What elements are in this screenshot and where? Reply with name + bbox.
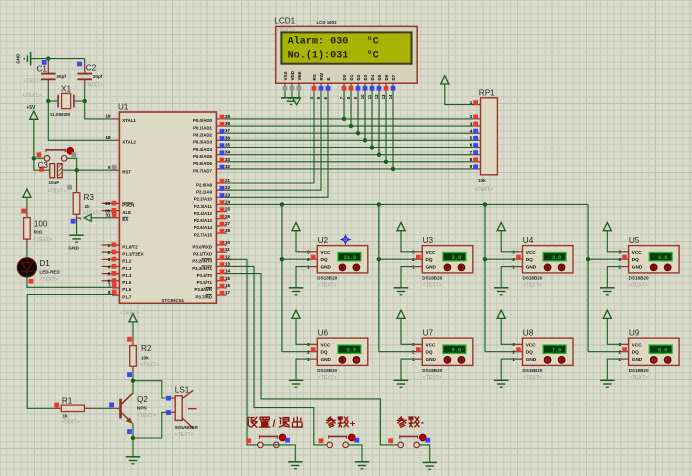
value Q2 NPN [137,405,147,410]
svg-text:DS18B20: DS18B20 [629,368,649,373]
wire +5V to U2 VCC [296,231,310,252]
temperature sensor U7 body [422,338,473,365]
pin P1.7 (8) [108,290,132,300]
svg-text:DS18B20: DS18B20 [422,276,442,281]
svg-text:GND: GND [526,265,537,270]
wire button SET to ground [264,445,296,462]
svg-text:<TEXT>: <TEXT> [48,189,67,195]
U4 display [543,253,566,261]
U7 button down [458,357,465,364]
wire collector node to LS1 top [133,381,168,398]
svg-text:P2.5/A13: P2.5/A13 [194,218,213,223]
U6 button down [353,357,360,364]
U3 button down [458,264,465,271]
svg-text:U2: U2 [318,236,329,245]
value R3 1k [85,204,91,209]
pin P0.3/AD3 (36) [193,135,231,144]
svg-text:11: 11 [225,247,230,252]
svg-text:13: 13 [381,94,386,99]
U4 pin GND (1) [512,264,536,269]
label U5 [629,236,640,245]
svg-text:D2: D2 [356,74,361,80]
svg-text:11.0592M: 11.0592M [50,112,70,117]
wire DQ to U9 [588,351,621,353]
text placeholder R3 [83,210,102,216]
U9 pin DQ (2) [618,347,639,355]
pin P1.6 (7) [108,283,132,293]
wire LCD RS to P2.0 [227,91,314,183]
svg-text:GND: GND [321,265,332,270]
power +5V (RP1) [441,76,449,84]
resistor R1 [53,405,92,411]
label LS1 [175,386,190,395]
LCD pin D4 (11) [367,74,375,99]
value U6 DS18B20 [317,368,337,373]
RP1 pin 1 [470,100,481,105]
svg-text:17: 17 [225,290,231,295]
pin P2.4/A12 (25) [194,207,231,216]
svg-text:50Ω: 50Ω [34,229,43,234]
svg-text:P2.0/A8: P2.0/A8 [196,182,212,187]
svg-text:SOUNDER: SOUNDER [175,425,199,430]
wire +5V to U9 VCC [607,318,621,344]
state square Q2 base (blue) [109,403,114,408]
wire RST [77,169,112,171]
sounder LS1 [168,390,197,428]
text placeholder LCD1 [276,28,295,34]
capacitor C2 [77,63,92,85]
pin P1.5 (6) [102,278,132,285]
svg-text:DS18B20: DS18B20 [629,276,649,281]
wire +5V to R100 [26,197,28,217]
node D1/P0.1 junction [349,124,353,128]
svg-text:P3.5/T1: P3.5/T1 [197,280,213,285]
svg-text:<TEXT>: <TEXT> [84,83,103,89]
svg-text:5.0: 5.0 [347,347,356,353]
ground (U4) [494,288,509,295]
svg-text:P2.6/A14: P2.6/A14 [194,225,213,230]
svg-text:P0.3/AD3: P0.3/AD3 [193,140,213,145]
wire DQ bus (P2.3) [227,203,588,205]
capacitor C1 [41,63,56,85]
svg-text:<TEXT>: <TEXT> [629,283,648,289]
node DQ drop 3 row1 junction [483,257,487,261]
label U6 [318,329,329,338]
wire DQ to U4 [485,258,515,260]
text placeholder U6 [318,375,337,381]
svg-text:4.0: 4.0 [658,255,667,261]
U4 button up [544,264,551,271]
ground (Q2) [126,457,141,464]
svg-text:RP1: RP1 [479,89,495,98]
wire +5V to U5 VCC [607,231,621,252]
svg-text:EA: EA [122,217,129,222]
text placeholder C1 [24,79,43,85]
U3 pin VCC (3) [412,250,436,255]
svg-text:18: 18 [105,135,111,140]
svg-text:8.0: 8.0 [658,347,667,353]
value LS1 SOUNDER [175,425,199,430]
pin P3.7/RD (17) [195,290,230,299]
svg-text:P0.4/AD4: P0.4/AD4 [193,147,213,152]
text placeholder X1 [23,93,42,99]
svg-text:13: 13 [225,261,231,266]
svg-text:<TEXT>: <TEXT> [141,363,160,369]
U6 pin DQ (2) [307,347,328,355]
LCD pin D3 (10) [360,74,368,99]
label RP1 [479,89,495,98]
svg-text:<TEXT>: <TEXT> [175,432,194,438]
node Q2 emitter junction [131,436,135,440]
value C1 30pf [56,74,66,79]
svg-text:+5V: +5V [26,105,36,111]
pin XTAL1 (19) [105,114,136,124]
svg-text:DQ: DQ [632,257,639,262]
pin P0.0/AD0 (39) [193,114,231,123]
node X1 left junction [46,99,50,103]
U2 display [338,253,361,261]
label button PARAM+ [327,417,356,430]
svg-text:22: 22 [225,185,231,190]
svg-text:VEE: VEE [297,71,302,80]
wire +5V to U4 VCC [501,231,515,252]
ground (LCD) [282,98,301,105]
text placeholder C2 [84,83,103,89]
U8 button up [544,357,551,364]
svg-text:ALE: ALE [122,210,131,215]
pin P2.0/A8 (21) [196,178,230,187]
U9 pin VCC (3) [618,342,642,347]
svg-text:P0.0/AD0: P0.0/AD0 [193,118,213,123]
state square R2 top (red) [127,337,132,342]
svg-text:P0.1/AD1: P0.1/AD1 [193,125,213,130]
power +5V (U3) [397,222,405,230]
svg-text:39: 39 [225,114,231,119]
label C3 [38,161,49,170]
node button left junction [32,156,36,160]
svg-text:GND: GND [426,265,437,270]
svg-text:<TEXT>: <TEXT> [61,420,80,426]
crystal X1 [48,93,84,108]
resistor pack RP1 body [481,98,498,175]
pin P2.7/A15 (28) [194,228,231,237]
LCD pin RW (5) [316,72,324,99]
svg-text:GND: GND [632,357,643,362]
node DQ drop 2 row1 junction [377,257,381,261]
svg-text:RS: RS [312,74,317,80]
pin XTAL2 (18) [105,135,136,145]
svg-text:29: 29 [105,201,111,206]
state square C1 top (blue) [42,60,47,65]
wire LCD VSS/VDD/VEE to ground [285,91,299,99]
state square R3 top (gray) [67,185,72,190]
svg-text:Alarm: 030 °C: Alarm: 030 °C [288,35,379,47]
value U3 DS18B20 [422,276,442,281]
resistor R2 [130,346,137,367]
svg-text:31.0: 31.0 [344,255,356,261]
svg-text:NPN: NPN [137,405,147,410]
ground (U3) [394,288,409,295]
svg-text:36: 36 [225,135,231,140]
wire LCD D7 to P0.7 [392,91,394,169]
pin P2.2/A10 (23) [194,192,231,201]
wire +5V to R2 [132,322,134,346]
state square LS1 bottom (blue) [166,410,171,415]
svg-text:Q2: Q2 [137,395,148,404]
svg-text:DQ: DQ [321,350,328,355]
svg-text:RST: RST [122,170,131,175]
pin P2.1/A9 (22) [196,185,230,194]
power +5V (U8) [497,310,505,318]
U8 pin GND (1) [512,357,536,362]
svg-text:VCC: VCC [526,342,537,347]
pin P0.2/AD2 (37) [193,128,231,137]
value R1 1k [63,414,69,419]
U8 pin VCC (3) [512,342,536,347]
label U9 [629,329,640,338]
power +5V (U6) [292,310,300,318]
wire U5 GND to ground [607,267,621,288]
svg-text:19: 19 [105,114,111,119]
resistor R3 [73,184,80,218]
RP1 pin 7 [470,150,481,155]
svg-text:X1: X1 [61,85,71,94]
wire LCD RW to P2.1 [227,91,321,190]
svg-text:DQ: DQ [321,257,328,262]
RP1 pin 2 [470,114,481,119]
svg-text:No.(1):031 °C: No.(1):031 °C [288,50,379,62]
svg-text:23: 23 [225,192,231,197]
svg-text:D6: D6 [384,74,389,80]
value U5 DS18B20 [629,276,649,281]
LCD text line1 [288,35,379,47]
wire P0.7 to RP1 pin 9 [227,168,475,170]
ground (button PLUS) [355,462,370,469]
svg-text:P1.7: P1.7 [122,294,132,299]
LED D1 [17,258,36,277]
svg-text:<TEXT>: <TEXT> [523,283,542,289]
wire D1 to P1.6 [27,277,112,288]
U5 button down [664,264,671,271]
LCD pin VEE (3) [294,71,302,99]
wire DQ drop 2 [378,204,380,351]
svg-text:DS18B20: DS18B20 [317,368,337,373]
svg-text:<TEXT>: <TEXT> [318,375,337,381]
svg-text:DS18B20: DS18B20 [523,368,543,373]
button PARAM- [398,434,426,448]
U3 button up [444,264,451,271]
svg-text:GND: GND [68,245,79,251]
svg-text:GND: GND [426,357,437,362]
wire LCD D6 to P0.6 [385,91,387,162]
value LCD 1602 [317,20,338,25]
U9 pin GND (1) [618,357,642,362]
node D6/P0.6 junction [384,160,388,164]
state square button right (gray) [72,152,77,157]
U9 display [649,345,672,353]
wire button right to RST net [67,158,76,170]
svg-text:<TEXT>: <TEXT> [423,375,442,381]
capacitor C3 (polarized) [34,164,77,178]
power arrow (LCD VDD) [293,98,301,105]
svg-text:GND: GND [16,53,21,64]
power +5V (U7) [397,310,405,318]
svg-text:1k: 1k [63,414,69,419]
wire LCD D4 to P0.4 [371,91,373,148]
wire +5V to U6 VCC [296,318,310,344]
state square C2 top (blue) [77,62,82,67]
node DQ bus junction 3 [483,202,487,206]
svg-text:DQ: DQ [632,350,639,355]
wire P0.6 to RP1 pin 8 [227,161,475,163]
power +5V (reset circuit) [26,105,38,119]
svg-text:26: 26 [225,214,231,219]
text placeholder U9 [629,375,648,381]
LCD pin D7 (14) [388,74,396,99]
state square SET/EXIT left (red) [246,438,251,443]
wire DQ to U5 [588,258,621,260]
RP1 pin 3 [470,121,481,126]
svg-text:16: 16 [225,283,231,288]
svg-text:GND: GND [321,357,332,362]
wire U4 GND to ground [501,267,515,288]
U4 pin DQ (2) [512,255,533,263]
RP1 pin 5 [470,136,481,141]
svg-text:10: 10 [225,240,231,245]
U9 button up [650,357,657,364]
svg-text:E: E [326,77,331,80]
wire +5V to U8 VCC [501,318,515,344]
pin P1.4 (5) [102,271,132,278]
state square Q2 emitter (blue) [127,429,132,434]
pin P3.2/INT0 (12) [192,254,230,263]
U8 pin DQ (2) [512,347,533,355]
state square PARAM+ right (blue) [354,438,359,443]
wire X1 to XTAL1 [85,101,112,119]
svg-text:14: 14 [225,269,231,274]
value U7 DS18B20 [422,368,442,373]
LCD pin D0 (7) [339,74,347,99]
svg-text:RW: RW [319,72,324,80]
LCD pin D5 (12) [374,74,382,99]
pin P2.3/A11 (24) [194,199,231,208]
svg-text:P0.7/AD7: P0.7/AD7 [193,168,213,173]
label R1 [62,396,73,405]
LCD text line2 [288,50,379,62]
value X1 11.0592M [50,112,70,117]
text placeholder U7 [423,375,442,381]
svg-text:XTAL2: XTAL2 [122,140,136,145]
U2 pin GND (1) [307,264,331,269]
wire P0.1 to RP1 pin 3 [227,125,475,127]
RP1 pin 9 [470,164,481,169]
svg-text:DQ: DQ [426,257,433,262]
state square R1 left (red) [54,403,59,408]
svg-text:DS18B20: DS18B20 [422,368,442,373]
state square PARAM+ left (red) [319,438,324,443]
ground (U6) [289,380,304,387]
svg-text:C1: C1 [37,65,48,74]
temperature sensor U9 body [629,338,680,365]
label Q2 [137,395,148,404]
svg-text:LCD1: LCD1 [274,17,295,26]
node D2/P0.2 junction [356,131,360,135]
svg-text:<TEXT>: <TEXT> [23,93,42,99]
pin marks R3 bottom [76,216,81,220]
wire U6 GND to ground [296,359,310,380]
temperature sensor U4 body [523,246,574,273]
wire DQ to U8 [485,351,515,353]
state square R2 bottom (blue) [127,372,132,377]
pin P3.6/WR (16) [194,283,230,292]
U4 pin VCC (3) [512,250,536,255]
power +5V (U2) [292,222,300,230]
svg-text:VDD: VDD [290,70,295,80]
svg-text:P1.3: P1.3 [122,266,132,271]
LCD pin D2 (9) [353,74,361,99]
LCD pin VSS (1) [280,71,288,99]
pin P2.6/A14 (27) [194,221,231,230]
pin P2.5/A13 (26) [194,214,231,223]
LCD pin RS (4) [309,74,317,99]
wire R100 to D1 [26,239,28,258]
U7 pin VCC (3) [412,342,436,347]
text placeholder 100 [33,237,52,243]
text placeholder R1 [61,420,80,426]
svg-text:P3.4/T0: P3.4/T0 [197,273,213,278]
state square button left (red) [37,152,42,157]
temperature sensor U6 body [317,338,368,365]
wire +5V to RP1 pin1 [445,84,474,105]
svg-text:VCC: VCC [321,342,332,347]
U6 pin VCC (3) [307,342,331,347]
svg-text:R3: R3 [84,193,95,202]
RP1 pin 6 [470,143,481,148]
wire P1.7 to R1 [27,295,112,409]
ground (U5) [600,288,615,295]
svg-text:<TEXT>: <TEXT> [137,413,156,419]
wire +5V to U3 VCC [401,231,415,252]
LCD pin E (6) [323,77,331,99]
svg-text:10uF: 10uF [49,180,60,185]
svg-text:P2.1/A9: P2.1/A9 [196,189,212,194]
svg-text:25: 25 [225,207,231,212]
svg-text:PSEN: PSEN [122,203,134,208]
svg-text:2.0: 2.0 [452,255,461,261]
U6 pin GND (1) [307,357,331,362]
label button PARAM- [397,417,424,429]
ground (button SET) [288,462,303,469]
U3 pin GND (1) [412,264,436,269]
svg-text:24: 24 [225,199,231,204]
svg-text:U8: U8 [523,329,534,338]
label U4 [523,236,534,245]
label button SET/EXIT [248,417,303,430]
U6 display [338,345,361,353]
svg-text:37: 37 [225,128,231,133]
wire DQ drop 1 [281,204,283,351]
state square D1 bottom (red) [29,279,34,284]
power +5V (U5) [603,222,611,230]
svg-text:<TEXT>: <TEXT> [523,375,542,381]
wire LCD D1 to P0.1 [350,91,352,126]
wire LCD D3 to P0.3 [364,91,366,141]
wire C1 to X1 left [47,85,49,101]
label U3 [423,236,434,245]
svg-text:P2.7/A15: P2.7/A15 [194,232,213,237]
temperature sensor U2 body [317,246,368,273]
LCD pin VDD (2) [287,70,295,99]
